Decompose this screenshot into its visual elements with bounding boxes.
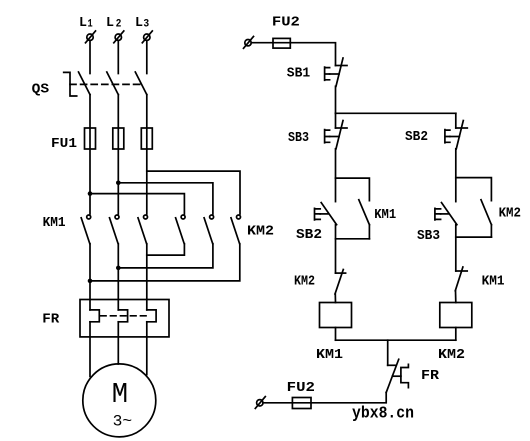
contactor KM2 main contact pole5 (204, 215, 214, 244)
contactor KM2 main contact pole4 (176, 215, 186, 244)
wire KM2 aux down (490, 225, 492, 237)
switch QS pole 3 blade (135, 72, 147, 95)
svg-text:SB2: SB2 (296, 227, 322, 243)
svg-text:ybx8.cn: ybx8.cn (352, 405, 414, 424)
wire FR to motor phase1 (89, 322, 91, 377)
svg-text:FU1: FU1 (51, 136, 77, 152)
svg-text:FR: FR (421, 368, 440, 384)
fuse FU1 pole1 (85, 128, 96, 149)
wire KM1 pole1 to FR (89, 244, 91, 310)
svg-text:3~: 3~ (113, 413, 133, 431)
wire junction horizontal (336, 112, 456, 114)
wire SB3 down left branch (335, 149, 337, 202)
wire KM1 pole2 to FR (117, 244, 119, 310)
relay FR box (80, 300, 169, 337)
svg-text:KM2: KM2 (247, 223, 274, 239)
wire KM2 coil to bus (455, 328, 457, 341)
wire KM2 pole6 bottom to phase1 (90, 244, 240, 281)
svg-text:1: 1 (88, 18, 94, 30)
svg-text:KM1: KM1 (482, 274, 505, 290)
wire QS to FU1 pole3 (146, 95, 148, 214)
wire bottom bus (336, 339, 456, 341)
wire terminal to FU2 (251, 42, 273, 44)
svg-text:L: L (106, 15, 114, 31)
wire QS to FU1 pole1 (89, 95, 91, 214)
svg-text:KM1: KM1 (374, 207, 396, 223)
node phase2 bottom dot (116, 266, 121, 271)
wire bus to FR contact (387, 340, 389, 365)
wire QS to FU1 pole2 (117, 95, 119, 214)
contactor KM1 main contact pole3 (138, 215, 148, 244)
wire FU2 to SB1 (290, 43, 335, 66)
wire junction down left (335, 113, 337, 128)
fuse FU1 pole3 (141, 128, 152, 149)
wire FU2 through (273, 42, 290, 44)
relay FR heater element 3 (147, 310, 156, 322)
wire KM1 aux down (368, 225, 370, 239)
relay FR heater element 1 (90, 310, 99, 322)
wire SB1 to junction (335, 86, 337, 113)
wire left branch rejoin (336, 238, 370, 240)
fuse FU2 top (273, 38, 290, 48)
node L3 branch corner (147, 171, 240, 214)
wire left aux branch top (336, 178, 370, 201)
contactor KM1 main contact pole2 (110, 215, 120, 244)
node L1 branch dot (88, 191, 93, 196)
contact KM1 interlock NC (455, 267, 467, 291)
relay FR linkage dashed (101, 315, 147, 317)
svg-text:KM2: KM2 (294, 274, 315, 290)
node L2 branch dot (116, 181, 121, 186)
pushbutton SB2 (NO start) (315, 203, 337, 225)
contactor KM2 main contact pole6 (231, 215, 241, 244)
svg-text:FU2: FU2 (287, 380, 315, 396)
wire KM1 pole3 to FR (146, 244, 148, 310)
wire KM1 interlock to coil (455, 291, 457, 303)
pushbutton SB3 (NC) (325, 121, 347, 149)
svg-text:SB2: SB2 (405, 129, 428, 145)
wire SB2 to KM2 interlock (335, 225, 337, 273)
svg-text:FU2: FU2 (272, 14, 300, 30)
svg-text:L: L (79, 15, 87, 31)
wire FR to motor phase2 (117, 322, 119, 364)
node phase1 bottom dot (88, 279, 93, 284)
wire KM2 pole5 bottom to phase2 (118, 244, 213, 268)
contact KM1 auxiliary NO (359, 200, 370, 225)
wire KM2 pole4 bottom to phase3 (147, 244, 185, 255)
svg-text:L: L (135, 15, 143, 31)
svg-text:QS: QS (32, 81, 49, 97)
wire right aux branch top (456, 178, 492, 201)
terminal L2 (114, 31, 124, 43)
wire junction down right (455, 113, 457, 128)
switch QS handle bracket (64, 72, 77, 96)
terminal L3 (142, 31, 152, 43)
terminal L1 (86, 31, 96, 43)
contact KM2 interlock NC (335, 270, 346, 295)
wire L3 to QS (146, 41, 148, 74)
svg-text:SB3: SB3 (288, 130, 309, 146)
svg-text:SB3: SB3 (417, 228, 440, 244)
contact KM2 auxiliary NO (481, 200, 491, 225)
svg-text:KM2: KM2 (499, 206, 521, 222)
switch QS pole 1 blade (79, 72, 91, 95)
svg-text:M: M (112, 378, 128, 411)
wire L2 branch to KM2 pole5 (118, 183, 213, 214)
wire FR contact to FU2 bottom (311, 393, 386, 403)
relay FR heater element 2 (118, 310, 127, 322)
wire L1 branch to KM2 pole4 (90, 194, 184, 214)
terminal control bottom (255, 397, 265, 409)
pushbutton SB2 (NC) (445, 121, 467, 149)
wire right branch rejoin (456, 236, 492, 238)
svg-text:KM2: KM2 (438, 347, 465, 363)
wire SB3 to KM1 interlock (455, 225, 457, 271)
terminal control top (244, 37, 254, 49)
wire FR to motor phase3 (146, 322, 148, 375)
svg-text:2: 2 (116, 18, 122, 30)
relay FR NC contact (386, 359, 408, 392)
pushbutton SB1 (NC stop) (325, 58, 347, 86)
svg-text:KM1: KM1 (43, 215, 66, 231)
wire KM2 interlock to coil (334, 294, 336, 303)
svg-text:SB1: SB1 (287, 66, 310, 82)
wire L2 to QS (117, 41, 119, 74)
motor M circle (83, 364, 156, 437)
pushbutton SB3 (NO start) (435, 203, 457, 225)
svg-text:KM1: KM1 (316, 347, 343, 363)
switch QS linkage dashed (70, 83, 144, 85)
fuse FU1 pole2 (113, 128, 124, 149)
wire SB2 down right branch (455, 149, 457, 202)
wire KM1 coil to bus (335, 328, 337, 341)
svg-text:FR: FR (42, 311, 60, 327)
svg-text:3: 3 (143, 18, 149, 30)
switch QS pole 2 blade (107, 72, 119, 95)
wire FU2 through bottom (292, 402, 311, 404)
coil KM2 (440, 303, 472, 328)
wire FU2 to terminal bottom (263, 402, 292, 404)
fuse FU2 bottom (292, 398, 311, 409)
wire L1 to QS (89, 41, 91, 74)
coil KM1 (320, 303, 352, 328)
contactor KM1 main contact pole1 (81, 215, 91, 244)
